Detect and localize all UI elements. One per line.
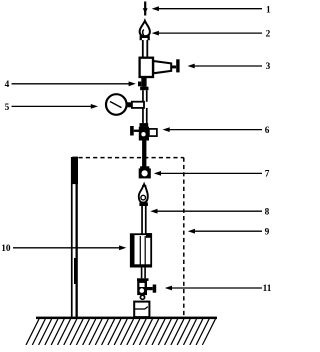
svg-text:5: 5 — [5, 103, 10, 113]
svg-text:11: 11 — [263, 284, 272, 294]
svg-text:3: 3 — [266, 62, 271, 72]
svg-text:1: 1 — [266, 5, 271, 15]
svg-text:8: 8 — [265, 207, 270, 217]
svg-text:10: 10 — [1, 244, 11, 254]
svg-text:6: 6 — [265, 126, 270, 136]
svg-text:2: 2 — [266, 29, 271, 39]
svg-text:9: 9 — [265, 227, 270, 237]
svg-text:4: 4 — [5, 80, 10, 90]
svg-text:7: 7 — [265, 170, 270, 180]
